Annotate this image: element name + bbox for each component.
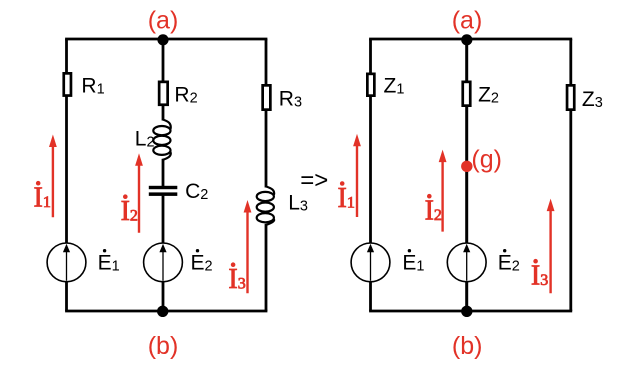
- svg-text:L3: L3: [288, 192, 308, 215]
- current arrow I3 (left): [246, 209, 248, 293]
- svg-text:I1: I1: [34, 183, 51, 214]
- capacitor C2: [149, 186, 178, 189]
- node a (left circuit) junction dot: [157, 34, 168, 45]
- source E2 (left circuit): [144, 243, 183, 282]
- wire: left branch with Z1, E1 (right circuit): [369, 39, 372, 311]
- svg-text:=>: =>: [300, 167, 328, 194]
- svg-text:(a): (a): [148, 7, 179, 35]
- svg-text:R1: R1: [81, 75, 104, 98]
- svg-text:R3: R3: [279, 88, 302, 111]
- current arrow I2 (right): [441, 159, 443, 232]
- node b (left circuit) junction dot: [157, 306, 168, 317]
- source E1 (right circuit): [351, 243, 390, 282]
- label I1 (right): [340, 181, 345, 186]
- label I3 (right): [533, 259, 538, 264]
- svg-text:I2: I2: [121, 196, 138, 227]
- wire: right branch with Z3 (right circuit): [569, 39, 572, 311]
- wire: middle branch with R2,L2,C2,E2 (left circuit): [162, 39, 165, 121]
- node b (right circuit) junction dot: [461, 306, 472, 317]
- source E2 (right circuit): [447, 243, 486, 282]
- resistor R1: [64, 73, 71, 95]
- svg-text:E1: E1: [98, 252, 120, 275]
- label I2 (left): [123, 194, 128, 199]
- label E1 (left): [103, 249, 106, 252]
- wire: left circuit bottom rail (b): [65, 310, 267, 313]
- label E1 (right): [408, 249, 411, 252]
- node g (right circuit) red dot: [461, 161, 472, 172]
- resistor R3: [263, 85, 271, 109]
- label I3 (left): [231, 262, 236, 267]
- svg-text:C2: C2: [185, 180, 208, 203]
- svg-text:I1: I1: [338, 183, 355, 214]
- label E2 (left): [196, 249, 199, 252]
- svg-text:E1: E1: [402, 252, 424, 275]
- label I2 (right): [427, 194, 432, 199]
- wire: left branch with R1, E1 (left circuit): [65, 39, 68, 311]
- wire: right circuit top rail (a): [369, 38, 572, 41]
- node a (right circuit) junction dot: [461, 34, 472, 45]
- current arrow I2 (left): [138, 162, 140, 232]
- resistor R2: [159, 82, 168, 105]
- inductor L3: [266, 187, 274, 196]
- svg-text:E2: E2: [498, 252, 520, 275]
- current arrow I1 (right): [356, 143, 358, 217]
- resistor Z3: [567, 85, 574, 109]
- svg-text:(b): (b): [452, 332, 483, 360]
- svg-text:(g): (g): [471, 146, 502, 174]
- svg-text:Z1: Z1: [384, 74, 405, 97]
- svg-text:Z2: Z2: [478, 84, 499, 107]
- current arrow I3 (right): [549, 208, 551, 294]
- svg-text:I2: I2: [425, 196, 442, 227]
- inductor L2: [163, 120, 171, 130]
- wire: right branch with R3,L3 (left circuit): [265, 39, 268, 188]
- wire: middle branch with Z2, E2, node g (right circuit): [465, 39, 468, 311]
- wire: left circuit top rail (a): [65, 38, 267, 41]
- current arrow I1 (left): [52, 144, 54, 218]
- label I1 (left): [36, 181, 41, 186]
- wire: right circuit bottom rail (b): [369, 310, 572, 313]
- svg-text:Z3: Z3: [582, 88, 603, 111]
- svg-text:I3: I3: [531, 261, 548, 292]
- svg-text:R2: R2: [174, 84, 197, 107]
- svg-text:E2: E2: [191, 252, 213, 275]
- svg-text:(b): (b): [148, 332, 179, 360]
- resistor Z1: [367, 74, 374, 96]
- resistor Z2: [463, 82, 471, 106]
- svg-text:I3: I3: [228, 264, 245, 295]
- svg-text:L2: L2: [135, 128, 155, 151]
- svg-text:(a): (a): [452, 7, 483, 35]
- label E2 (right): [503, 249, 506, 252]
- source E1 (left circuit): [47, 243, 86, 282]
